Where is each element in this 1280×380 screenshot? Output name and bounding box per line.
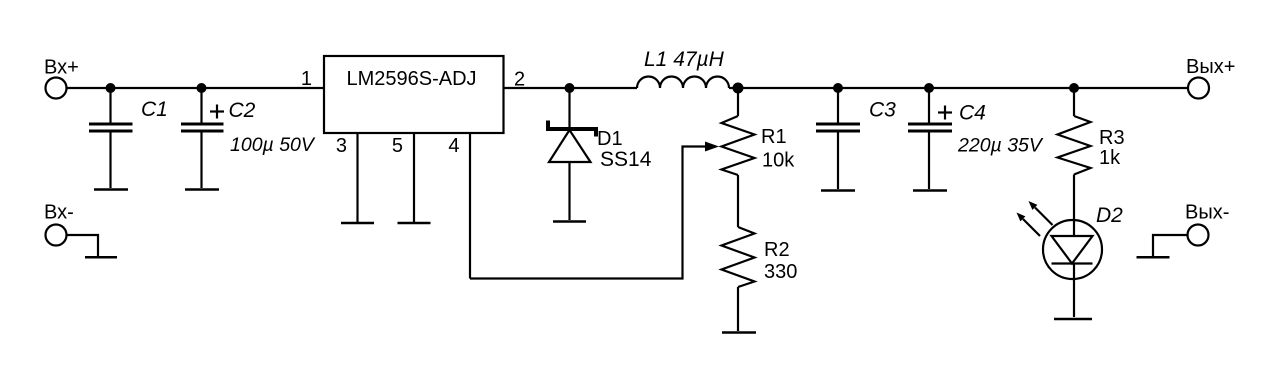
svg-text:LM2596S-ADJ: LM2596S-ADJ	[346, 68, 476, 90]
svg-text:100µ 50V: 100µ 50V	[230, 134, 316, 156]
svg-text:D2: D2	[1096, 204, 1123, 227]
svg-text:D1: D1	[597, 128, 623, 150]
svg-text:1k: 1k	[1099, 147, 1121, 169]
svg-text:C2: C2	[229, 99, 256, 122]
svg-text:C3: C3	[869, 99, 896, 122]
svg-text:R3: R3	[1099, 127, 1125, 149]
svg-text:2: 2	[514, 69, 525, 91]
svg-text:5: 5	[392, 135, 403, 157]
svg-text:R2: R2	[764, 239, 790, 261]
svg-text:220µ 35V: 220µ 35V	[957, 135, 1044, 157]
svg-text:Вх+: Вх+	[44, 57, 79, 79]
svg-text:Вых+: Вых+	[1186, 56, 1235, 78]
svg-text:C1: C1	[141, 98, 168, 121]
svg-text:C4: C4	[959, 102, 986, 125]
svg-text:4: 4	[448, 135, 459, 157]
svg-text:1: 1	[301, 68, 312, 90]
svg-text:R1: R1	[761, 126, 787, 148]
svg-text:330: 330	[764, 261, 797, 283]
svg-text:Вых-: Вых-	[1185, 202, 1229, 224]
svg-text:10k: 10k	[762, 150, 795, 172]
svg-text:SS14: SS14	[600, 148, 652, 171]
svg-text:3: 3	[336, 135, 347, 157]
svg-text:L1 47µH: L1 47µH	[644, 48, 725, 71]
svg-text:Вх-: Вх-	[44, 202, 74, 224]
